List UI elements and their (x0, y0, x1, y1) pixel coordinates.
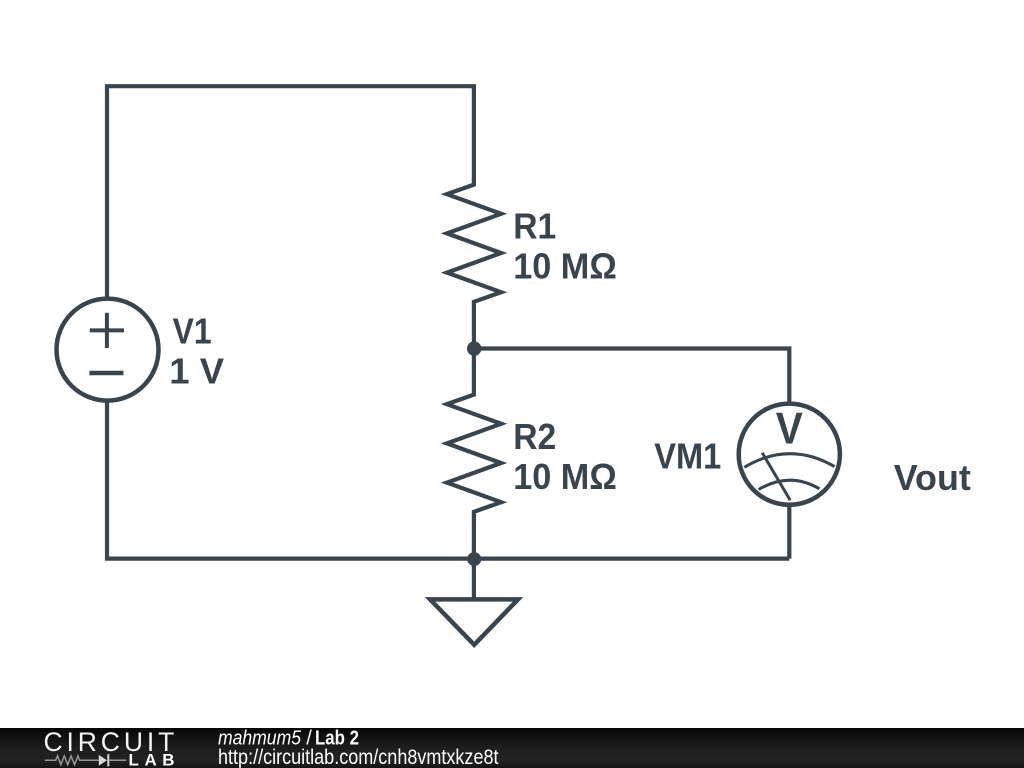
voltmeter V letter (776, 404, 804, 454)
svg-text:R1: R1 (513, 206, 556, 247)
svg-text:V1: V1 (173, 311, 212, 352)
svg-text:http://circuitlab.com/cnh8vmtx: http://circuitlab.com/cnh8vmtxkze8t (218, 745, 499, 768)
svg-text:LAB: LAB (129, 750, 178, 768)
resistor R1 (447, 178, 501, 349)
svg-text:Vout: Vout (894, 457, 971, 498)
voltage source V1 (57, 299, 159, 401)
svg-text:1 V: 1 V (169, 351, 224, 392)
wire top rail from V1 top to R1 top (107, 86, 474, 300)
wire bottom rail from V1 bottom to voltmeter branch (107, 400, 789, 559)
footer bar (0, 728, 1024, 768)
node B junction dot (467, 552, 481, 566)
wire node A to voltmeter VM1 top (474, 349, 789, 404)
svg-text:V: V (776, 404, 804, 454)
CircuitLab logo resistor-diode glyph (45, 754, 126, 766)
ground (430, 599, 518, 644)
svg-text:R2: R2 (513, 416, 556, 457)
svg-text:10 MΩ: 10 MΩ (513, 456, 617, 497)
wire node B to ground (472, 559, 476, 600)
svg-text:10 MΩ: 10 MΩ (513, 246, 617, 287)
svg-text:VM1: VM1 (654, 436, 721, 477)
voltmeter VM1 (739, 404, 840, 505)
node A junction dot (467, 341, 481, 355)
resistor R2 (447, 349, 501, 559)
wire voltmeter VM1 bottom to bottom rail (787, 505, 791, 559)
